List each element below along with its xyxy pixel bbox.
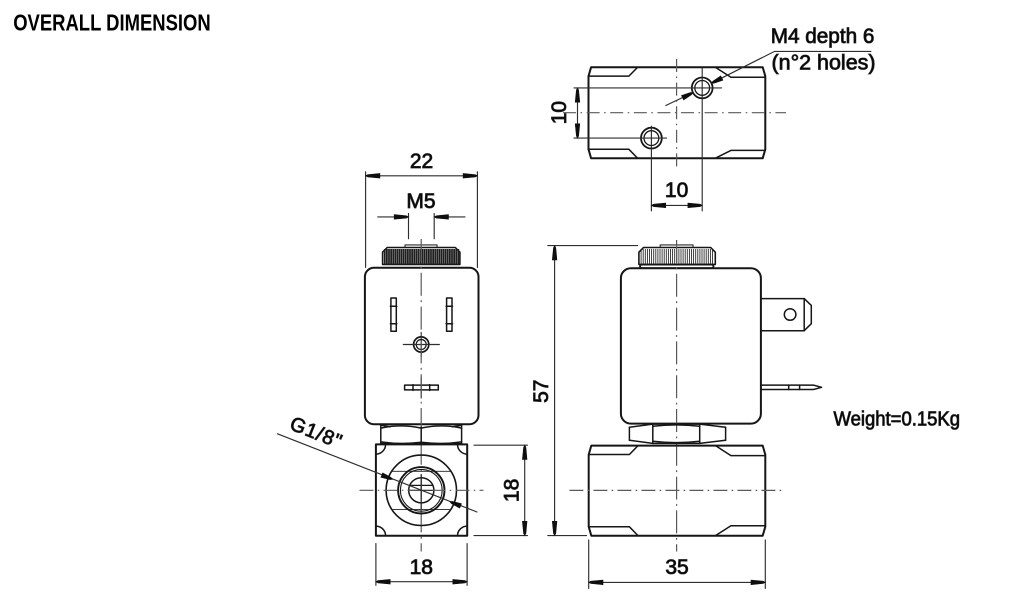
top view chamfer facet bottom-right <box>716 150 765 158</box>
front view vertical centerline <box>420 239 422 552</box>
side view block facet top-left <box>589 446 638 455</box>
side view hex nut <box>629 424 725 443</box>
dimension 10 left line <box>577 88 579 138</box>
svg-text:57: 57 <box>530 380 553 403</box>
svg-text:M5: M5 <box>406 190 435 213</box>
svg-text:10: 10 <box>548 101 571 124</box>
side view block facet bottom-right <box>716 526 765 536</box>
side view block facet bottom-left <box>589 527 638 536</box>
dimension 22 line <box>366 175 478 177</box>
dimension 18 bottom arrows <box>376 579 390 584</box>
dimension 57 arrows <box>552 246 557 260</box>
dimension 22 extension lines <box>366 172 478 268</box>
top view chamfer facet bottom-left <box>589 149 638 158</box>
front view thread circle inner <box>400 469 442 511</box>
top view M4 hole lower outer <box>641 128 662 149</box>
dimension M5 ticks <box>409 213 435 238</box>
side view vertical centerline <box>676 240 678 552</box>
side view knurled cap outline <box>639 248 715 265</box>
G1/8 leader arrows <box>381 473 393 480</box>
side view ground blade <box>761 385 822 389</box>
front view center screw cross lines <box>403 332 439 356</box>
front view pin slot right ticks <box>446 306 452 323</box>
front view M5 thread boss ridge <box>405 245 437 248</box>
side view knurl hatching <box>641 249 712 265</box>
dimension 22 arrows <box>366 174 380 179</box>
svg-text:18: 18 <box>500 479 523 502</box>
top view chamfer facet top-left <box>589 68 638 77</box>
dimension 35 arrows <box>589 580 603 585</box>
top view M4 hole upper outer <box>692 78 713 99</box>
M4 leader second segment <box>666 93 693 106</box>
front view block corner chamfer arcs <box>376 444 467 535</box>
side view ground blade ticks <box>789 385 800 389</box>
dimension 18 bottom line <box>376 581 467 583</box>
front view lower slot vertical centerline segment <box>420 378 422 399</box>
front view lower horizontal slot <box>405 385 439 390</box>
top view vertical centerline <box>676 59 678 169</box>
front view center screw outer circle <box>414 337 429 352</box>
dimension 18 right line <box>524 445 526 535</box>
side view block facet top-right <box>716 446 765 456</box>
front view coil body <box>365 268 479 424</box>
dimension 10 bottom arrows <box>651 203 665 208</box>
side view horizontal centerline <box>569 489 783 491</box>
front view lower slot ticks <box>413 385 430 391</box>
side view port block outline <box>589 446 766 536</box>
side view M5 thread boss ridge <box>660 245 693 248</box>
front view center screw inner circle <box>416 340 426 350</box>
svg-text:35: 35 <box>665 556 688 579</box>
front view port bore circle <box>409 478 434 503</box>
svg-text:M4 depth 6: M4 depth 6 <box>771 25 875 48</box>
dimension 35 extension lines <box>589 540 766 589</box>
dimension 10 left arrows <box>575 88 580 102</box>
front view connector pin slot right <box>447 298 452 331</box>
front view hex nut <box>381 425 462 443</box>
svg-text:OVERALL DIMENSION: OVERALL DIMENSION <box>13 10 211 36</box>
front view thread circle outer <box>398 467 444 513</box>
front view square port block <box>376 444 467 535</box>
side view coil body <box>621 268 761 423</box>
side view spade connector body <box>761 299 811 331</box>
svg-text:(n°2 holes): (n°2 holes) <box>772 51 876 74</box>
svg-text:18: 18 <box>410 556 433 579</box>
front view pin slot left ticks <box>390 306 396 323</box>
top view body outline <box>589 67 766 158</box>
front view knurled cap outline <box>383 248 460 265</box>
top view M4 hole lower inner <box>644 131 659 146</box>
front view knurl hatching <box>278 25 961 589</box>
top view hole cross lines lower <box>574 126 667 211</box>
dimension 18 right arrows <box>522 445 527 459</box>
front view port horizontal centerline <box>360 489 484 491</box>
side view spade connector inner edge <box>803 299 805 331</box>
front view port center cross solid <box>409 475 435 510</box>
dimension 18 right extension lines <box>474 445 528 535</box>
top view hole cross lines upper <box>574 68 722 211</box>
top view M4 hole upper inner <box>695 81 710 96</box>
top view horizontal centerline <box>563 112 786 114</box>
svg-text:Weight=0.15Kg: Weight=0.15Kg <box>834 409 961 431</box>
M4 leader line <box>712 51 871 83</box>
dimension 35 line <box>589 581 766 583</box>
svg-text:10: 10 <box>665 179 688 202</box>
front view port slot chord <box>410 484 433 486</box>
side view cap bottom lip <box>640 265 714 269</box>
dimension M5 arrows <box>394 215 408 220</box>
front view connector pin slot left <box>391 298 396 331</box>
dimension 57 extension lines <box>548 246 638 536</box>
front view port outer circle <box>386 455 456 525</box>
top view chamfer facet top-right <box>716 68 765 78</box>
G1/8 leader line <box>278 434 478 512</box>
M4 leader arrows <box>712 76 723 83</box>
front view port counterbore chords <box>392 471 451 509</box>
side view spade connector hole <box>784 309 796 321</box>
dimension 57 line <box>554 246 556 536</box>
dimension M5 lines <box>378 216 465 218</box>
dimension 10 bottom line <box>651 204 702 206</box>
svg-text:22: 22 <box>410 150 433 173</box>
dimension 18 bottom extension lines <box>376 544 467 586</box>
